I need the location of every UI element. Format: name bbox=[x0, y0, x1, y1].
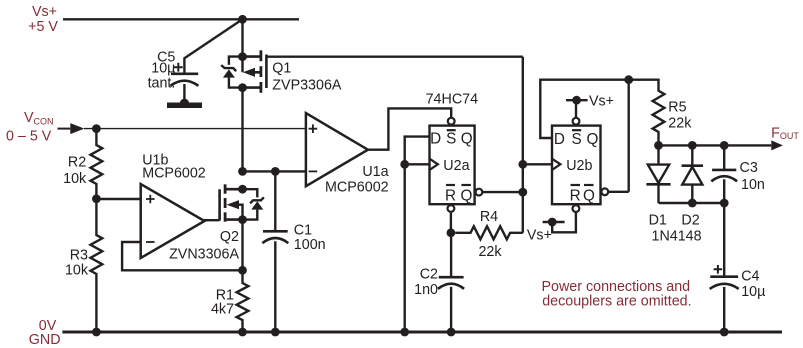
svg-text:+5 V: +5 V bbox=[28, 19, 58, 35]
svg-text:VCON: VCON bbox=[24, 110, 54, 127]
svg-text:R4: R4 bbox=[480, 209, 498, 225]
svg-text:10k: 10k bbox=[65, 262, 89, 278]
svg-text:1n0: 1n0 bbox=[414, 282, 438, 298]
wire U2b reset hook bbox=[552, 213, 576, 232]
svg-text:S: S bbox=[446, 131, 456, 148]
svg-text:U2b: U2b bbox=[566, 158, 592, 174]
node rail/C1 bbox=[271, 328, 280, 337]
svg-text:D: D bbox=[430, 131, 441, 148]
label Vs+ +5V supply bbox=[28, 4, 58, 35]
wire riser Q1 gate / U2b clock / R4 bbox=[522, 57, 524, 233]
svg-text:D1: D1 bbox=[649, 212, 667, 228]
node rail/C2 bbox=[447, 328, 456, 337]
node feedback/R5 junction bbox=[624, 75, 633, 84]
svg-text:Q: Q bbox=[587, 131, 599, 148]
node VCON input arrow bbox=[70, 123, 84, 134]
svg-text:10µ: 10µ bbox=[741, 284, 765, 300]
node C1 top junction bbox=[271, 167, 280, 176]
wire U1b output to Q2 gate bbox=[204, 219, 220, 221]
wire Q2 source down bbox=[241, 220, 243, 271]
svg-text:FOUT: FOUT bbox=[771, 126, 799, 142]
svg-text:4k7: 4k7 bbox=[211, 301, 234, 317]
wire rail to Q1 source bbox=[241, 19, 243, 56]
transistor Q2 ZVN3306A bbox=[169, 184, 264, 262]
node VCON/R2 junction bbox=[92, 124, 101, 133]
node rail/C4 bbox=[720, 328, 729, 337]
wire U2a reset stem bbox=[450, 213, 452, 233]
op-amp U1b MCP6002 bbox=[141, 152, 206, 258]
svg-text:ZVN3306A: ZVN3306A bbox=[169, 247, 239, 263]
label 0V GND bbox=[29, 318, 61, 348]
svg-text:U2a: U2a bbox=[443, 158, 469, 174]
node riser/U2b clock bbox=[518, 160, 527, 169]
wire FOUT row bbox=[659, 144, 772, 146]
power tap Vs+ for U2b set bbox=[566, 93, 614, 109]
svg-text:R: R bbox=[445, 187, 456, 204]
node top rail junction bbox=[238, 15, 247, 24]
wire U2a clock node to ground rail bbox=[404, 164, 406, 332]
node rail/R3 bbox=[92, 328, 101, 337]
wire to U1b noninverting input bbox=[96, 198, 140, 200]
transistor Q1 ZVP3306A bbox=[221, 50, 342, 93]
svg-text:U1a: U1a bbox=[362, 164, 388, 180]
wire 0V ground rail bbox=[62, 331, 782, 334]
node R2/R3/U1b+ junction bbox=[92, 194, 101, 203]
wire U1b feedback loop bbox=[122, 242, 242, 270]
capacitor C3 10n bbox=[711, 145, 765, 203]
wire U2a Q-bar output bbox=[482, 191, 523, 193]
wire Q1 gate to riser bbox=[266, 56, 522, 58]
node D2 bottom bbox=[688, 199, 697, 208]
wire U2b clock bbox=[523, 163, 552, 165]
node Q2 source / R1 / feedback junction bbox=[238, 266, 247, 275]
node Q1/Q2 drain junction bbox=[238, 167, 247, 176]
svg-text:R5: R5 bbox=[668, 99, 686, 115]
node FOUT arrow bbox=[771, 140, 783, 150]
svg-text:Vs+: Vs+ bbox=[527, 228, 552, 244]
svg-text:GND: GND bbox=[29, 332, 61, 348]
power tap Vs+ for U2b reset bbox=[527, 218, 565, 244]
resistor R3 10k bbox=[65, 199, 102, 332]
wire rail to C5 bbox=[184, 19, 242, 74]
wire VCON input lead bbox=[58, 128, 71, 130]
svg-text:MCP6002: MCP6002 bbox=[325, 179, 389, 195]
svg-text:C4: C4 bbox=[741, 268, 759, 284]
node rail/U2a clock ground bbox=[400, 328, 409, 337]
svg-text:10k: 10k bbox=[63, 171, 87, 187]
svg-text:Q1: Q1 bbox=[272, 61, 291, 77]
op-amp U1a MCP6002 bbox=[306, 113, 389, 195]
svg-text:0 – 5 V: 0 – 5 V bbox=[6, 128, 52, 144]
svg-text:Q: Q bbox=[583, 187, 595, 204]
capacitor C1 100n bbox=[262, 171, 325, 332]
svg-text:Q2: Q2 bbox=[220, 229, 239, 245]
node R5/D1/FOUT bbox=[654, 141, 663, 150]
svg-text:D2: D2 bbox=[681, 212, 699, 228]
svg-text:ZVP3306A: ZVP3306A bbox=[272, 78, 342, 94]
svg-text:Vs+: Vs+ bbox=[32, 4, 57, 20]
resistor R4 22k bbox=[455, 209, 523, 260]
node C3 bottom bbox=[720, 199, 729, 208]
diode D2 1N4148 bbox=[681, 145, 703, 228]
svg-text:C3: C3 bbox=[740, 160, 758, 176]
svg-text:C2: C2 bbox=[420, 267, 438, 283]
svg-text:22k: 22k bbox=[668, 115, 692, 131]
wire U2b Q-bar to feedback riser bbox=[608, 191, 629, 193]
node rail/R1 bbox=[238, 328, 247, 337]
node riser/U2a Q-bar bbox=[518, 188, 527, 197]
wire drain node row bbox=[243, 170, 306, 172]
wire U2a D and clock tie bbox=[405, 137, 430, 165]
wire Q1 drain down to node bbox=[241, 88, 243, 172]
node R4/C2/reset junction bbox=[447, 228, 456, 237]
wire U2b set stem bbox=[575, 104, 577, 117]
resistor R5 22k bbox=[629, 80, 693, 146]
svg-text:decouplers are omitted.: decouplers are omitted. bbox=[542, 294, 691, 310]
svg-text:22k: 22k bbox=[478, 244, 502, 260]
svg-text:MCP6002: MCP6002 bbox=[142, 165, 206, 181]
svg-text:R: R bbox=[570, 187, 581, 204]
label VCON input bbox=[6, 110, 54, 145]
svg-text:10n: 10n bbox=[741, 177, 765, 193]
svg-text:100n: 100n bbox=[294, 237, 326, 253]
capacitor C2 1n0 bbox=[414, 233, 464, 332]
resistor R2 10k bbox=[63, 129, 102, 199]
node C3 top bbox=[720, 141, 729, 150]
wire VCON to U1a noninverting input bbox=[84, 128, 306, 130]
svg-text:1N4148: 1N4148 bbox=[652, 229, 702, 245]
note power connections omitted bbox=[541, 279, 691, 310]
diode D1 1N4148 bbox=[646, 145, 670, 228]
flip-flop U2a 74HC74 bbox=[430, 118, 483, 212]
flip-flop U2b 74HC74 bbox=[552, 118, 608, 212]
wire diode bottom row bbox=[659, 202, 725, 204]
resistor R1 4k7 bbox=[211, 270, 248, 332]
svg-text:74HC74: 74HC74 bbox=[426, 91, 479, 107]
ground C5 bbox=[167, 99, 202, 108]
capacitor C4 10u bbox=[710, 203, 766, 332]
node U2a D/clock junction bbox=[400, 160, 409, 169]
wire feedback riser bbox=[628, 80, 630, 192]
node D2 top bbox=[688, 141, 697, 150]
wire U2b D feedback loop bbox=[540, 80, 628, 138]
svg-text:10µ: 10µ bbox=[151, 60, 175, 76]
svg-text:Q: Q bbox=[461, 131, 473, 148]
wire U1a output to U2a set input bbox=[368, 108, 451, 149]
wire Vs+ top rail bbox=[63, 18, 299, 20]
svg-text:Vs+: Vs+ bbox=[589, 93, 614, 109]
svg-text:Q: Q bbox=[460, 187, 472, 204]
svg-text:S: S bbox=[571, 131, 581, 148]
capacitor C5 10u tant bbox=[148, 49, 199, 103]
svg-text:tant.: tant. bbox=[148, 75, 176, 91]
svg-text:R3: R3 bbox=[70, 248, 88, 264]
svg-text:D: D bbox=[554, 131, 565, 148]
svg-text:R2: R2 bbox=[68, 154, 86, 170]
